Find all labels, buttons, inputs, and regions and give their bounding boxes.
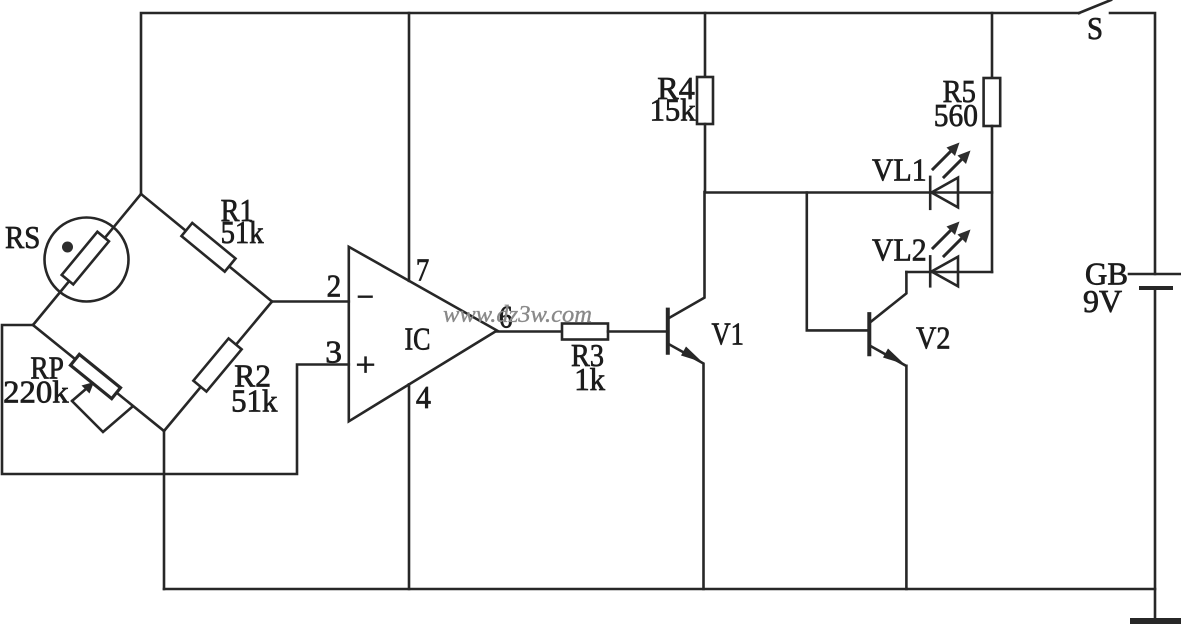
svg-text:3: 3 — [325, 334, 342, 370]
svg-text:VL1: VL1 — [872, 151, 927, 187]
transistor V1 base bar — [666, 310, 670, 353]
svg-text:1k: 1k — [574, 361, 605, 397]
svg-text:IC: IC — [405, 320, 431, 356]
resistor R3 body — [562, 324, 608, 340]
LED VL1 cathode bar — [929, 177, 932, 209]
wire R4 body to junction — [704, 124, 707, 192]
wire right rail below battery — [1154, 288, 1157, 619]
LED VL1 triangle — [932, 178, 959, 208]
wire bridge edge left-bottom (through RP) — [33, 325, 164, 431]
wire bridge bottom node down to ground rail — [163, 431, 166, 589]
wire R3 to V1 base — [608, 330, 667, 333]
resistor R5 body — [984, 78, 1001, 126]
potentiometer RP wiper return wire — [72, 401, 132, 432]
svg-text:9V: 9V — [1083, 283, 1122, 319]
svg-text:+: + — [356, 347, 376, 384]
svg-text:51k: 51k — [221, 214, 264, 250]
battery GB long plate — [1129, 273, 1181, 276]
wire horizontal LED feed line — [705, 191, 992, 194]
resistor R2 body (rotated) — [193, 338, 241, 391]
svg-text:51k: 51k — [231, 383, 277, 419]
svg-text:220k: 220k — [3, 373, 69, 409]
wire op-amp pin 7 vertical (top rail to triangle top edge) — [408, 13, 411, 281]
svg-text:www.dz3w.com: www.dz3w.com — [443, 302, 592, 328]
LED VL2 cathode bar — [929, 256, 932, 286]
svg-text:RS: RS — [5, 219, 40, 255]
LED VL2 emission arrow 2 — [944, 230, 971, 257]
resistor R4 body — [697, 77, 713, 124]
svg-text:V2: V2 — [916, 320, 951, 356]
svg-text:4: 4 — [416, 379, 431, 415]
wire top rail left segment with left vertical to bridge top — [141, 13, 1079, 194]
transistor V2 emitter arrowhead — [883, 349, 905, 365]
transistor V1 collector — [669, 192, 705, 318]
wire R4 branch top — [704, 13, 707, 77]
potentiometer RP body (rotated) — [71, 354, 121, 398]
wire op-amp pin 4 vertical (triangle bottom edge to ground rail) — [408, 384, 411, 589]
wire bridge edge bottom-right (through R2) — [164, 302, 272, 432]
svg-text:VL2: VL2 — [872, 231, 927, 267]
wire bottom ground rail — [164, 588, 1155, 591]
wire top rail right segment to right rail corner — [1110, 13, 1155, 274]
wire op-amp output to R3 — [497, 330, 562, 333]
wire R5 body down to VL2 line — [991, 126, 994, 272]
wire bridge edge top-right (through R1) — [141, 194, 272, 302]
transistor V2 collector — [871, 272, 907, 322]
LED VL2 emission arrow 1 — [933, 222, 960, 249]
wire VL2 line — [906, 271, 992, 274]
sensor RS dot — [62, 242, 73, 253]
svg-text:560: 560 — [934, 97, 978, 133]
svg-text:15k: 15k — [650, 92, 696, 128]
sensor RS resistor body (rotated) — [62, 232, 109, 285]
wire bridge edge top-left (through RS) — [33, 194, 141, 325]
LED VL1 emission arrow 1 — [933, 143, 960, 170]
switch S arm — [1079, 0, 1111, 13]
svg-text:S: S — [1087, 10, 1103, 46]
svg-text:2: 2 — [327, 267, 342, 303]
wire bridge right node to op-amp pin 2 — [272, 300, 349, 303]
svg-text:−: − — [357, 279, 375, 316]
sensor RS circle — [45, 218, 129, 302]
wire R5 branch top — [991, 13, 994, 77]
transistor V1 emitter — [669, 344, 704, 589]
resistor R1 body (rotated) — [181, 223, 235, 272]
LED VL2 triangle — [932, 257, 959, 287]
transistor V2 emitter — [871, 346, 907, 589]
potentiometer RP wiper arrow — [73, 389, 87, 401]
op-amp U1 triangle — [349, 247, 497, 421]
wire left feedback loop from left node to op-amp pin 3 — [2, 325, 349, 474]
wire drop to V2 base — [807, 193, 868, 331]
LED VL1 emission arrow 2 — [944, 151, 971, 178]
svg-text:7: 7 — [416, 251, 429, 287]
transistor V2 base bar — [867, 314, 871, 354]
battery GB short plate — [1141, 286, 1171, 290]
svg-text:V1: V1 — [712, 315, 744, 351]
transistor V1 emitter arrowhead — [681, 347, 703, 363]
bottom-right thick bar — [1133, 618, 1179, 624]
